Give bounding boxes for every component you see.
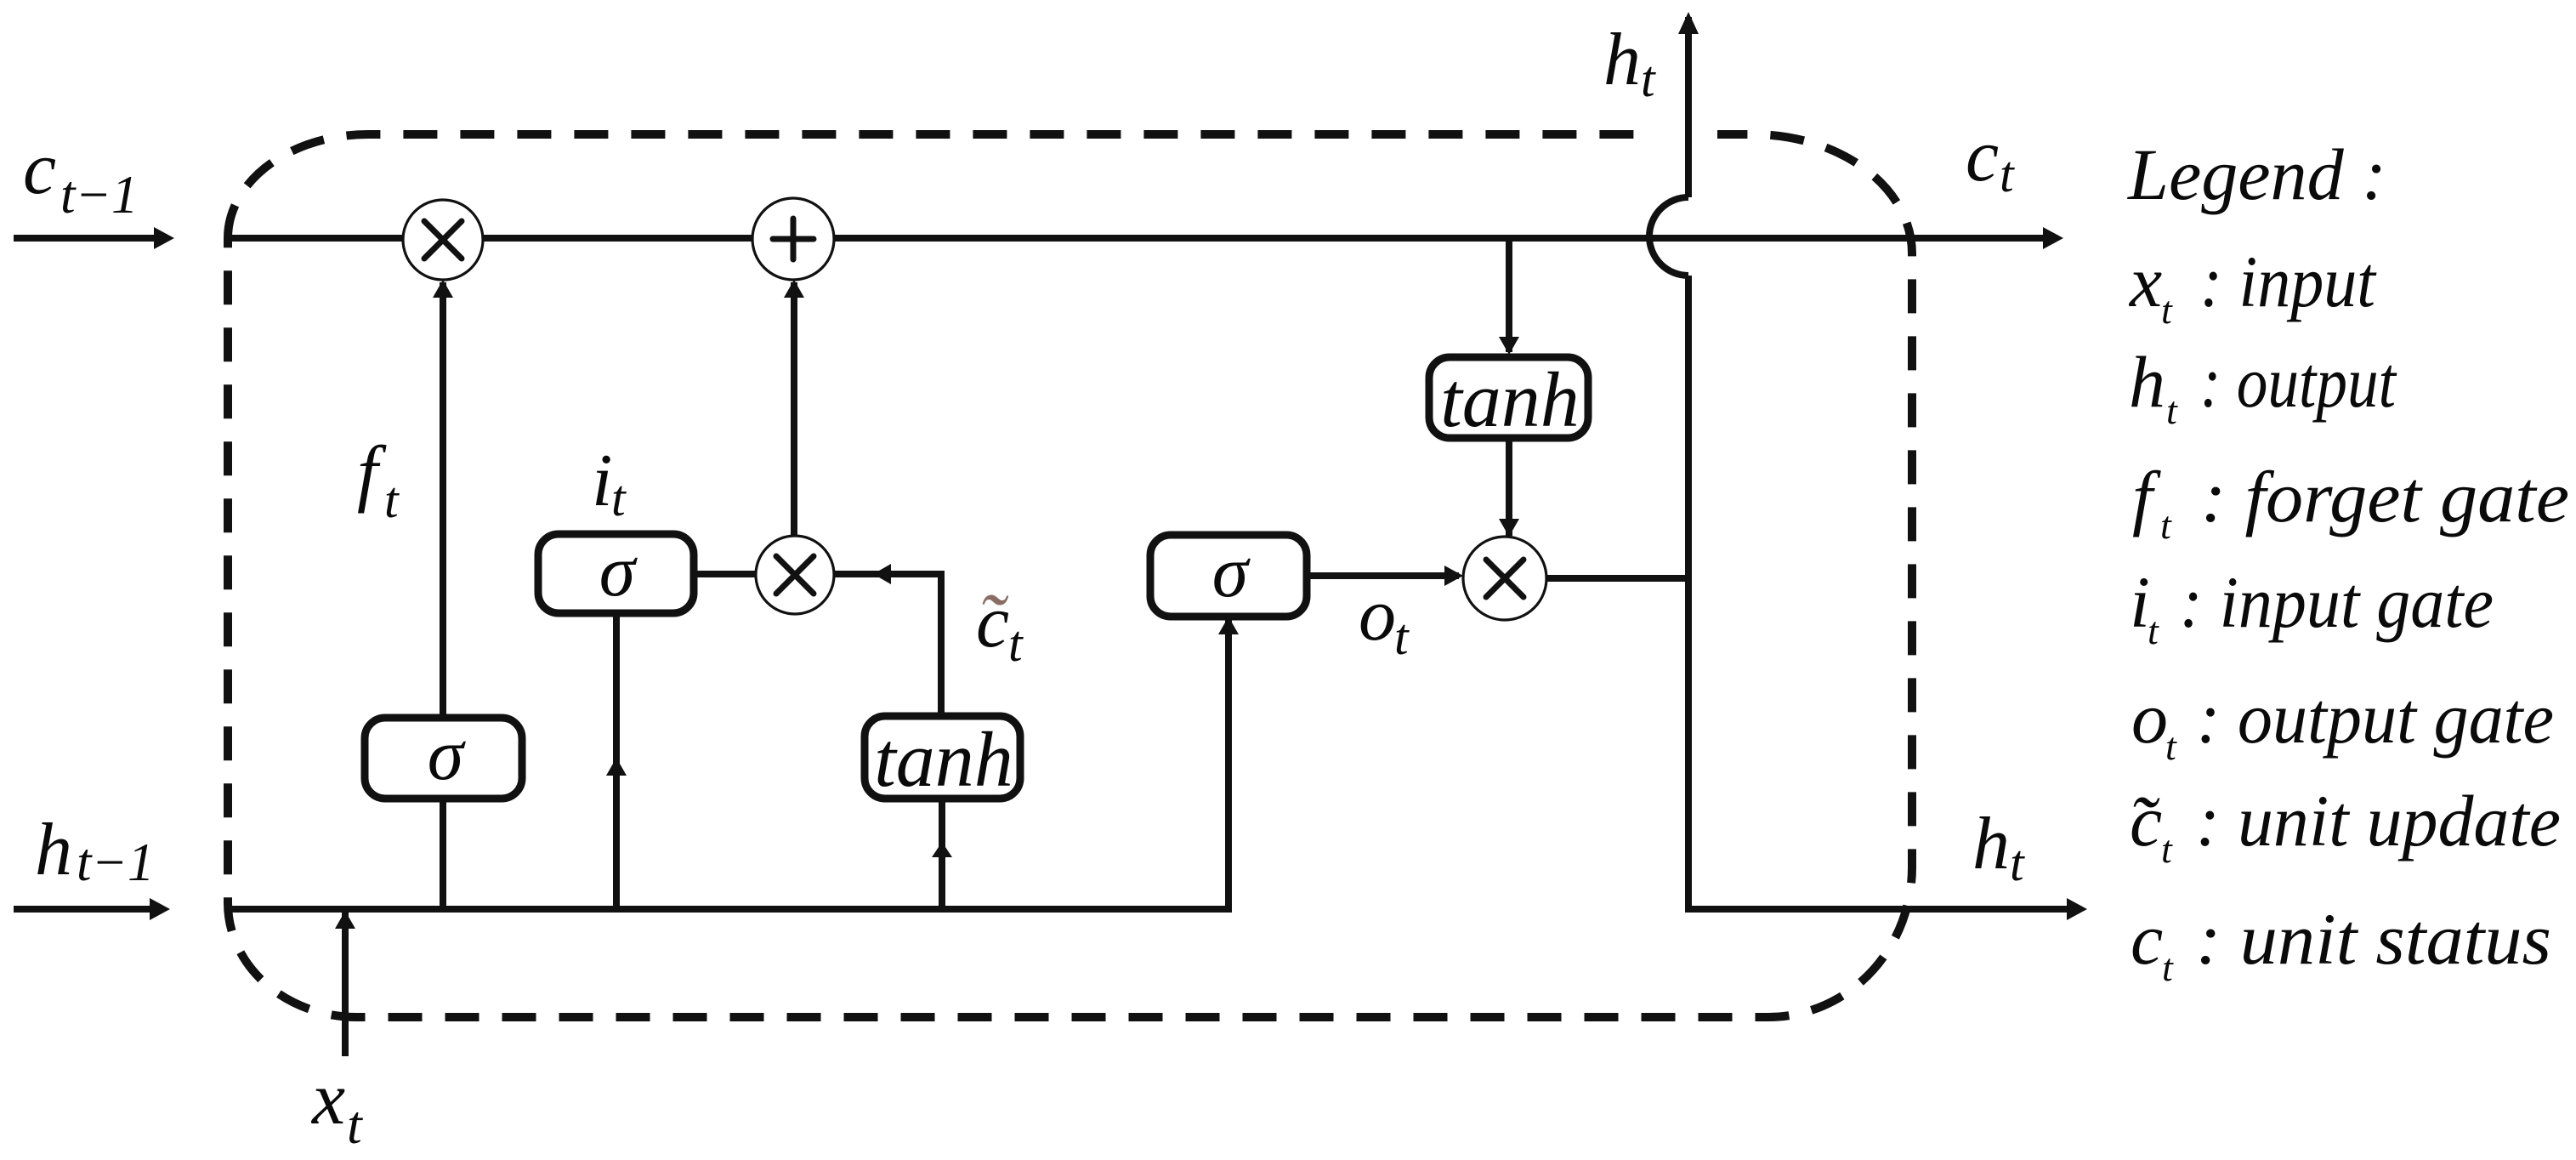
svg-text:tanh: tanh [874,716,1013,803]
svg-text:: unit update: : unit update [2196,780,2561,861]
svg-text:σ: σ [599,530,638,611]
svg-text:σ: σ [428,714,467,795]
svg-text:t−1: t−1 [60,165,139,225]
svg-text:c: c [1966,115,1999,197]
svg-text:t−1: t−1 [77,833,155,892]
svg-text:t: t [611,470,627,526]
svg-text:t: t [2160,503,2172,547]
svg-text:: input gate: : input gate [2180,561,2494,643]
svg-text:: unit status: : unit status [2196,898,2551,980]
svg-text:o: o [1359,574,1396,657]
svg-text:t: t [384,472,400,528]
svg-text:f: f [357,432,387,515]
svg-text:h: h [35,809,72,891]
svg-text:t: t [2161,288,2173,332]
svg-text:h: h [1603,19,1641,101]
svg-text:t: t [2010,835,2025,891]
svg-text:t: t [1394,609,1410,665]
svg-text:t: t [2162,946,2174,989]
svg-text:: output: : output [2200,341,2397,423]
svg-text:c: c [2131,898,2163,980]
svg-text:tanh: tanh [1440,356,1580,443]
svg-text:t: t [347,1095,364,1155]
svg-text:x: x [310,1058,345,1140]
svg-text:t: t [2166,389,2178,432]
svg-text:t: t [2000,146,2015,202]
svg-text:t: t [2165,725,2177,768]
svg-text:i: i [592,440,612,522]
svg-text:t: t [1008,616,1024,672]
svg-text:: input: : input [2200,241,2377,322]
svg-text:o: o [2131,677,2168,759]
svg-text:f: f [2132,456,2161,537]
svg-text:t: t [2148,609,2159,652]
svg-text:t: t [1641,51,1656,107]
svg-text:c: c [23,128,56,210]
svg-text:σ: σ [1212,531,1251,612]
svg-text:x: x [2128,241,2162,322]
svg-text:Legend :: Legend : [2126,134,2386,215]
svg-text:t: t [2161,827,2173,871]
svg-text:: forget gate: : forget gate [2201,456,2569,537]
svg-text:h: h [2129,341,2165,423]
svg-text:: output gate: : output gate [2197,677,2554,759]
svg-text:h: h [1972,803,2010,885]
